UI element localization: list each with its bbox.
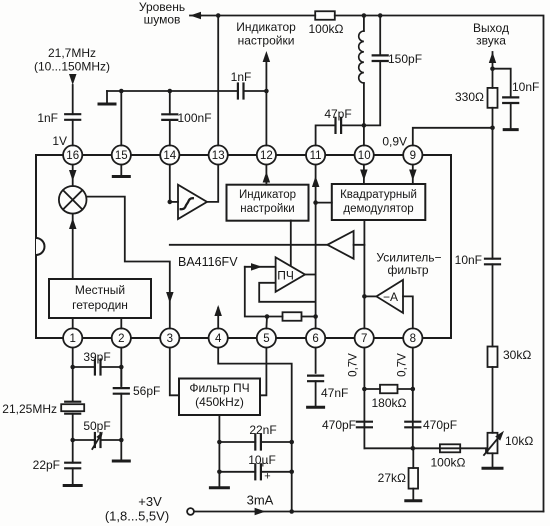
svg-text:0,7V: 0,7V [348,353,360,377]
svg-text:100nF: 100nF [178,111,212,125]
svg-text:470pF: 470pF [322,418,356,432]
svg-text:8: 8 [410,333,416,345]
IF filter box (Фильтр ПЧ 450kHz) [179,379,260,416]
wire pin 2 branch to ground [120,440,122,460]
voltage label 0,7V (pin 7) [348,353,360,377]
wire tuning indicator box to IF amp [290,221,292,267]
svg-text:9: 9 [410,150,416,162]
svg-text:100kΩ: 100kΩ [309,22,344,36]
wire oscillator to pin 1 [72,318,74,328]
svg-text:30kΩ: 30kΩ [503,348,531,362]
wire IF amp inner feedback loop [259,283,315,302]
wire demodulator output to buffer amp input [354,220,365,245]
pin 14 [160,145,179,164]
wire oscillator to mixer with arrow [69,214,77,279]
pin 8 [403,328,422,347]
svg-text:ПЧ: ПЧ [277,269,294,283]
svg-text:гетеродин: гетеродин [72,298,128,312]
svg-text:10kΩ: 10kΩ [505,434,533,448]
ground (47nF) [308,406,324,409]
wire pin 14 to limiter input [168,165,179,205]
pin 16 [63,145,82,164]
svg-text:1nF: 1nF [231,70,252,84]
wire -A output to pin 7 column [362,294,376,299]
ground (filter output) [210,486,228,489]
capacitor 100nF [162,91,211,145]
svg-text:2: 2 [118,333,124,345]
svg-text:(450kHz): (450kHz) [195,395,244,409]
pin 9 [403,145,422,164]
ground bus wire (top left) [107,89,172,94]
capacitor 39pF [70,350,123,375]
svg-text:7: 7 [361,333,367,345]
wire pin 2 down [120,348,122,386]
resistor 100kΩ (bottom) [431,444,466,469]
wire pin 9 to demodulator with arrow [409,165,417,184]
tuning indicator output label (Индикатор настройки) [236,20,296,48]
capacitor 470pF (pin 8) [405,418,457,432]
capacitor 56pF [114,367,161,440]
capacitor 470pF (pin 7) [322,418,372,432]
wire pin 1 down [72,348,74,402]
svg-text:+3V: +3V [138,494,162,509]
feedback resistor (IC internal) [265,312,316,321]
ground (pin 1 branch) [64,484,81,487]
svg-text:звука: звука [476,34,506,48]
svg-text:180kΩ: 180kΩ [372,396,407,410]
svg-text:−A: −A [383,290,398,304]
svg-text:10nF: 10nF [455,253,482,267]
resistor 330Ω [455,69,498,128]
svg-text:1nF: 1nF [37,111,58,125]
svg-text:шумов: шумов [144,13,181,27]
svg-text:Индикатор: Индикатор [236,20,296,34]
pin 12 [257,145,276,164]
amplifier-filter label (Усилитель-фильтр) [376,251,441,278]
svg-text:3mA: 3mA [247,493,274,508]
wire tuning indicator box to pin 12 with arrow [263,165,271,185]
capacitor 150pF [362,16,422,128]
svg-text:Индикатор: Индикатор [239,189,296,201]
ground (top left) [99,91,115,104]
svg-text:27kΩ: 27kΩ [378,471,406,485]
svg-text:4: 4 [215,333,222,345]
svg-text:настройки: настройки [238,34,295,48]
svg-text:Квадратурный: Квадратурный [340,189,417,201]
svg-text:13: 13 [212,150,225,162]
crystal 21,25MHz [2,402,84,440]
pin 7 [355,328,374,347]
svg-text:470pF: 470pF [423,418,457,432]
svg-text:настройки: настройки [240,203,294,215]
svg-text:3: 3 [167,333,173,345]
wire mixer output to pin 3 [87,197,174,329]
wire pin 9 to audio node [413,66,495,145]
svg-text:47nF: 47nF [321,386,348,400]
wire audio node down right side [492,128,494,259]
wire to potentiometer wiper [485,448,487,452]
pin 11 [306,145,325,164]
svg-text:0,9V: 0,9V [382,135,407,149]
svg-text:0,7V: 0,7V [397,353,409,377]
svg-text:(1,8...5,5V): (1,8...5,5V) [105,509,169,524]
svg-text:демодулятор: демодулятор [343,203,413,215]
ground (potentiometer) [483,467,502,470]
wire pin 13 to top bus [217,16,219,146]
voltage label 0,7V (pin 8) [397,353,409,377]
wire filter output down [217,415,222,487]
svg-text:22nF: 22nF [249,423,276,437]
amp -A (IC internal) [376,280,403,313]
pin 2 [112,328,131,347]
wire pin 10 to tank [363,125,365,145]
capacitor 10µF (electrolytic) [219,453,291,483]
wire oscillator to pin 2 [120,318,122,328]
audio output arrow [489,52,496,69]
svg-text:1: 1 [69,333,75,345]
svg-text:10: 10 [358,150,371,162]
pin 3 [160,328,179,347]
wire pin 4 to supply riser [218,348,294,514]
pin 1 [63,328,82,347]
wire pin 7 down [362,348,367,449]
resistor 30kΩ [488,347,532,433]
wire pin 10 to demodulator with arrow [360,165,368,184]
buffer amp (IC internal, left-pointing) [327,231,353,259]
svg-text:21,7MHz: 21,7MHz [48,46,96,60]
potentiometer 10kΩ [484,431,533,467]
svg-text:50pF: 50pF [83,419,110,433]
ground (IC internal, pin 15) [113,165,129,177]
pin 10 [355,145,374,164]
resistor 180kΩ [364,385,412,410]
svg-text:1V: 1V [52,134,67,148]
svg-text:150pF: 150pF [388,52,422,66]
svg-text:Местный: Местный [75,283,125,297]
pin 15 [112,145,131,164]
svg-text:+: + [264,471,270,483]
voltage label 1V [52,134,67,148]
RF input arrow [69,74,77,114]
wire IF amp output to pin11 column [305,274,316,276]
svg-text:22pF: 22pF [33,458,60,472]
wire pin 5 to filter [260,348,266,396]
svg-text:12: 12 [260,150,273,162]
ground (27kΩ) [406,499,421,502]
wire buffer amp output to pin 14 node [170,244,328,246]
capacitor 1nF (pin 12 bus) [170,70,269,99]
svg-text:39pF: 39pF [83,350,110,364]
inductor L (quadrature tank) [359,16,364,126]
capacitor 22pF [33,440,81,484]
IC U1 BA4116FV body outline [36,155,451,338]
ground (pin 2 branch) [113,460,129,463]
top supply bus wire [201,13,544,511]
resistor 27kΩ [378,448,418,499]
wire pin 15 to ground bus [120,91,122,145]
svg-text:10nF: 10nF [512,80,539,94]
wire pin16 to mixer with arrow [69,165,77,186]
svg-text:Фильтр ПЧ: Фильтр ПЧ [189,381,249,395]
supply wire 3mA [194,493,544,516]
svg-text:56pF: 56pF [133,384,160,398]
capacitor 50pF (variable) [70,419,123,449]
quadrature demodulator box (Квадратурный демодулятор) [332,184,426,220]
svg-text:(10...150MHz): (10...150MHz) [34,60,110,74]
svg-text:21,25MHz: 21,25MHz [2,402,57,416]
svg-text:15: 15 [115,150,128,162]
audio output label (Выход звука) [473,21,509,48]
wire feedback resistor to pin 5 [265,317,268,329]
svg-text:100kΩ: 100kΩ [431,456,466,470]
wire pin 11 column to pin 6 [312,165,320,329]
capacitor 1nF (pin 16) [37,111,80,145]
wire pin 11 column to demodulator input [316,202,332,204]
wire detector output node [364,447,486,449]
svg-text:10µF: 10µF [248,453,276,467]
svg-text:фильтр: фильтр [387,263,428,277]
wire IF amp input loop to feedback resistor [245,267,267,317]
resistor 100kΩ (top) [309,11,344,36]
svg-text:5: 5 [263,333,269,345]
svg-text:47pF: 47pF [324,107,351,121]
svg-text:16: 16 [66,150,79,162]
svg-text:BA4116FV: BA4116FV [178,255,238,269]
wire -A input to pin 8 [403,296,413,328]
pin 13 [209,145,228,164]
ground (10nF audio) [504,128,517,131]
pin 4 [209,328,228,347]
wire pin 8 down [411,348,416,451]
svg-text:14: 14 [163,150,176,162]
local oscillator box (Местный гетеродин) [49,279,151,318]
wire pin 4 internal arrow [214,305,222,328]
wire limiter output to pin 13 [207,165,218,202]
capacitor 10nF (audio top) [493,69,540,129]
svg-text:330Ω: 330Ω [455,90,484,104]
pin 5 [257,328,276,347]
capacitor 10nF (series, right) [455,253,500,347]
capacitor 47nF [308,348,348,406]
svg-text:6: 6 [312,333,318,345]
IF amp ПЧ (IC internal) [276,257,305,292]
limiter amp (IC internal) [178,185,207,219]
voltage label 0,9V [382,135,407,149]
supply terminal +3V [105,494,194,524]
RF input label 21,7MHz [34,46,110,74]
capacitor 22nF [219,423,291,450]
capacitor 47pF [316,107,364,145]
wire pin 12 to tuning indicator arrow [263,51,271,145]
noise level arrow [190,12,201,20]
wire pin 7 column [363,245,365,329]
wire IF amp input with arrow [245,263,276,271]
wire pin 3 to filter [170,348,179,396]
mixer (IC internal) [59,186,87,214]
noise level label (Уровень шумов) [139,0,185,27]
IC type label BA4116FV [178,255,238,269]
pin 6 [306,328,325,347]
svg-text:11: 11 [310,150,322,162]
tuning indicator box (Индикатор настройки internal) [227,185,309,221]
